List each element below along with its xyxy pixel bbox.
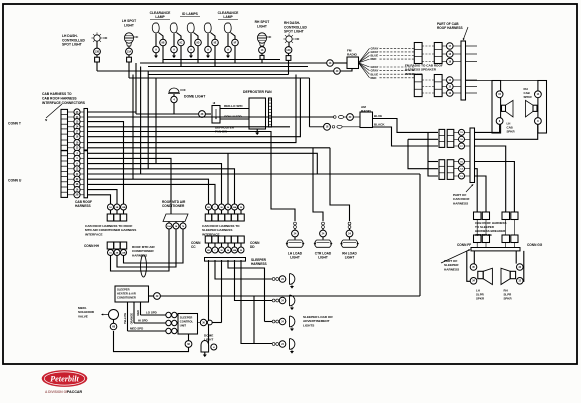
ground bbox=[203, 355, 207, 358]
connector circle 13C bbox=[285, 47, 292, 54]
svg-text:SLEEPER: SLEEPER bbox=[117, 288, 130, 292]
connector circle 24 CTR LOAD bbox=[320, 230, 327, 237]
svg-text:HI: HI bbox=[213, 102, 216, 105]
wire bbox=[215, 260, 272, 279]
sleeper load/advertisement light bbox=[272, 320, 275, 323]
lamp RH LOAD LIGHT bbox=[341, 240, 358, 247]
connector circle 33 bbox=[517, 264, 524, 271]
speaker RH cab horn bbox=[533, 105, 537, 111]
wire bus bbox=[129, 77, 310, 79]
connector CONN T pin stack bbox=[61, 109, 68, 150]
wire bbox=[214, 46, 216, 67]
wire CONN U8 bbox=[88, 190, 118, 204]
clearance/ID lamp 3 bbox=[187, 23, 194, 33]
wire bbox=[208, 260, 210, 342]
wire bbox=[128, 46, 130, 48]
svg-text:CONN FF: CONN FF bbox=[457, 243, 471, 247]
connector circle 13B bbox=[94, 48, 101, 55]
clearance/ID lamp 1 bbox=[152, 23, 159, 33]
wire bbox=[344, 116, 347, 118]
connector circle 13 bbox=[259, 47, 266, 54]
svg-text:CONN HH: CONN HH bbox=[84, 244, 100, 248]
svg-text:HARNESS: HARNESS bbox=[75, 204, 91, 208]
svg-text:RED: RED bbox=[371, 57, 377, 61]
wire bbox=[135, 63, 137, 114]
wire bbox=[501, 80, 538, 82]
wire stubs to bar bbox=[476, 243, 478, 248]
dome light symbol bbox=[169, 88, 179, 93]
svg-text:16A: 16A bbox=[167, 225, 171, 228]
terminal connector bbox=[260, 55, 264, 59]
svg-text:LIGHT: LIGHT bbox=[318, 256, 328, 260]
connector circles row bbox=[108, 204, 114, 210]
svg-text:LAMP: LAMP bbox=[155, 15, 165, 19]
wire bbox=[419, 174, 421, 296]
svg-text:BLUE: BLUE bbox=[374, 114, 382, 118]
svg-text:2B: 2B bbox=[116, 252, 119, 254]
wire CONN T7 bbox=[88, 75, 297, 143]
svg-text:INTERFACE: INTERFACE bbox=[85, 232, 103, 236]
wire CONN U4 bbox=[88, 169, 235, 204]
svg-text:BLACK: BLACK bbox=[374, 123, 385, 127]
connector circle 24 RH LOAD bbox=[346, 230, 353, 237]
connector circles row 2 bbox=[206, 247, 212, 253]
ground bbox=[291, 349, 293, 351]
svg-text:DD: DD bbox=[250, 245, 255, 249]
wire CONN U6 bbox=[88, 179, 209, 204]
wire bbox=[253, 296, 255, 344]
terminal square pairs row 2 bbox=[474, 235, 482, 243]
connector circle H bbox=[211, 344, 217, 350]
svg-text:ORANGE: ORANGE bbox=[130, 313, 134, 325]
ground bbox=[256, 129, 258, 133]
wire dashed links bbox=[422, 45, 434, 47]
connector circles 17 18 19 bbox=[447, 43, 454, 50]
wire bus bbox=[163, 59, 280, 61]
svg-text:ROOF HARNESS: ROOF HARNESS bbox=[437, 26, 463, 30]
svg-text:LIGHT: LIGHT bbox=[345, 256, 355, 260]
connector CONN U circles bbox=[74, 150, 80, 156]
ground bbox=[291, 284, 293, 286]
svg-text:13A: 13A bbox=[127, 50, 132, 53]
connector circle 28 bbox=[199, 111, 206, 118]
lamp LH LOAD LIGHT bbox=[287, 240, 304, 247]
connector circle 9 bbox=[171, 46, 178, 53]
svg-text:HARNESS: HARNESS bbox=[453, 201, 468, 205]
fuse link RH LOAD bbox=[348, 222, 351, 225]
wire bbox=[228, 260, 265, 322]
sleeper heater box bbox=[115, 286, 149, 302]
wire CONN T5 bbox=[88, 132, 296, 222]
terminal squares row 2 bbox=[107, 242, 114, 249]
speaker LH cab horn bbox=[502, 105, 506, 111]
ground bbox=[207, 53, 209, 56]
wire ORN-HI SPD bbox=[220, 118, 250, 120]
breaker strip column 1 bbox=[414, 43, 422, 64]
wire bbox=[342, 126, 360, 128]
svg-text:13B: 13B bbox=[95, 50, 100, 53]
svg-text:LO SPD: LO SPD bbox=[146, 311, 157, 315]
connector circle 4 bbox=[171, 96, 177, 102]
svg-text:HEATER & A/R: HEATER & A/R bbox=[117, 291, 136, 295]
svg-text:SPKR: SPKR bbox=[504, 296, 513, 300]
wire bbox=[475, 125, 538, 140]
wire bbox=[294, 228, 296, 230]
defroster fan box bbox=[249, 98, 266, 129]
FM radio wire fan-out bbox=[359, 48, 370, 63]
wire bbox=[467, 251, 470, 281]
wire CONN T1 bbox=[88, 111, 137, 113]
connector circle 9B bbox=[160, 39, 167, 46]
wire bbox=[288, 42, 290, 46]
svg-text:UNIT: UNIT bbox=[180, 323, 187, 327]
connector circle 35 bbox=[470, 264, 477, 271]
speaker RH sleeper horn bbox=[510, 271, 515, 278]
svg-text:RED: RED bbox=[136, 310, 140, 316]
lamp RH spot light bbox=[257, 33, 266, 43]
connector circle 9 bbox=[188, 46, 195, 53]
wire bbox=[162, 46, 164, 63]
svg-text:13C: 13C bbox=[286, 49, 291, 52]
wire bbox=[476, 220, 478, 236]
wire drop to CONN U bbox=[140, 67, 142, 175]
sleeper load/advertisement light bbox=[272, 299, 275, 302]
connector circle 14 bbox=[535, 91, 542, 98]
svg-text:DEFROSTER FAN: DEFROSTER FAN bbox=[243, 90, 272, 94]
FM radio box bbox=[347, 57, 359, 69]
wire CONN U5 bbox=[88, 173, 421, 175]
svg-text:YELLOW: YELLOW bbox=[123, 312, 127, 324]
wire bbox=[227, 153, 229, 204]
svg-text:SPKR: SPKR bbox=[507, 129, 516, 133]
lamp RH dash-controlled spot light bbox=[286, 36, 292, 42]
wire bbox=[208, 342, 210, 344]
connector circle 9C bbox=[178, 39, 185, 46]
svg-text:HARNESS: HARNESS bbox=[444, 267, 459, 271]
svg-text:LIGHT: LIGHT bbox=[124, 23, 134, 27]
wire drop to CONN U bbox=[132, 75, 134, 180]
wire LO SPD bbox=[141, 314, 166, 316]
sleeper load/advertisement light bbox=[272, 343, 275, 346]
svg-text:CAB ROOF HARNESS: CAB ROOF HARNESS bbox=[42, 96, 77, 100]
breaker strip column 2 bbox=[434, 43, 442, 64]
sleeper control unit box bbox=[178, 314, 198, 335]
defroster fan switch bbox=[212, 106, 220, 124]
fuse bbox=[337, 125, 342, 128]
connector circle pairs bbox=[166, 312, 171, 317]
wire bus bbox=[140, 62, 327, 64]
wire bbox=[340, 69, 352, 72]
terminal squares row bbox=[205, 214, 212, 221]
svg-text:SPKR: SPKR bbox=[524, 95, 533, 99]
ground bbox=[227, 53, 229, 56]
leader arrow bbox=[464, 27, 469, 39]
connector circle 24 LH LOAD bbox=[292, 230, 299, 237]
terminal square bbox=[95, 57, 100, 62]
speaker LH cab frame bbox=[492, 81, 501, 134]
connector circle bbox=[496, 118, 503, 125]
wire bbox=[473, 251, 475, 264]
wire loop bbox=[408, 139, 438, 168]
terminal square bbox=[286, 56, 291, 61]
wire stubs bbox=[466, 45, 478, 47]
connector circles 14 15 16 bbox=[447, 77, 454, 84]
wire bbox=[475, 176, 487, 212]
svg-text:INTERFACE CONNECTORS: INTERFACE CONNECTORS bbox=[42, 101, 86, 105]
wire CONN U2 bbox=[88, 158, 172, 214]
ground bbox=[190, 53, 192, 56]
wire bbox=[173, 94, 175, 96]
svg-text:RED-LO SPD: RED-LO SPD bbox=[224, 104, 243, 108]
wire HI SPD bbox=[134, 322, 166, 324]
connector circle 40 bbox=[334, 68, 341, 75]
connector circle 13 bbox=[327, 60, 334, 67]
wire bbox=[96, 41, 98, 48]
leader arrow bbox=[466, 185, 473, 192]
svg-text:SLEEPER: SLEEPER bbox=[180, 316, 193, 320]
connector circle 29 bbox=[154, 293, 161, 300]
terminal square pairs row 1 bbox=[474, 212, 482, 220]
wire bbox=[227, 34, 229, 47]
connector circle 9 bbox=[225, 46, 232, 53]
sleeper load/advertisement light bbox=[272, 278, 275, 281]
leader arrow bbox=[441, 250, 469, 263]
svg-text:RADIO: RADIO bbox=[347, 53, 358, 57]
connector circles bbox=[459, 129, 465, 135]
wire bbox=[97, 70, 334, 72]
wire bbox=[349, 228, 351, 230]
connector ladder block group 2 bbox=[439, 160, 445, 180]
svg-text:LIGHT: LIGHT bbox=[290, 256, 300, 260]
terminal squares row bbox=[107, 214, 114, 221]
svg-text:RED: RED bbox=[371, 76, 377, 80]
svg-text:24A: 24A bbox=[233, 206, 237, 209]
svg-text:CONN GG: CONN GG bbox=[527, 243, 543, 247]
connector circles row 2 bbox=[108, 250, 114, 256]
svg-text:ID LAMPS: ID LAMPS bbox=[182, 12, 199, 16]
wire bbox=[333, 62, 347, 64]
wire bbox=[235, 260, 273, 301]
speaker RH cab frame bbox=[538, 81, 547, 134]
connector circle 34 bbox=[470, 278, 477, 285]
wire drop to CONN U bbox=[155, 78, 157, 164]
svg-text:A DIVISION OF: A DIVISION OF bbox=[45, 390, 68, 394]
leader arrow bbox=[46, 104, 62, 118]
wire bbox=[515, 251, 517, 264]
wire bus bbox=[148, 66, 308, 68]
wire bbox=[205, 113, 211, 115]
wire fan speed leads bbox=[127, 302, 129, 331]
wire CONN T2 bbox=[88, 116, 334, 118]
connector circles row CONN CC bbox=[206, 204, 212, 210]
fuse link CTR LOAD bbox=[322, 222, 325, 225]
svg-text:9E: 9E bbox=[214, 42, 217, 44]
connector bar sleeper harness bbox=[205, 258, 246, 262]
svg-text:MED SPD: MED SPD bbox=[130, 327, 143, 331]
connector bar part of cab roof harness bbox=[461, 41, 466, 100]
wire bbox=[466, 80, 493, 82]
lamp CTR LOAD LIGHT bbox=[315, 240, 332, 247]
clearance/ID lamp 5 bbox=[224, 23, 231, 33]
connector circle 9D bbox=[195, 39, 202, 46]
svg-text:INTERFACE: INTERFACE bbox=[405, 72, 423, 76]
lamp LH spot light bbox=[124, 33, 133, 43]
wire bbox=[475, 146, 506, 212]
connector circles bbox=[166, 223, 172, 229]
svg-text:2B: 2B bbox=[76, 195, 79, 197]
svg-text:CC: CC bbox=[191, 245, 196, 249]
fuse link LH LOAD bbox=[294, 222, 297, 225]
wire drop to CONN U bbox=[147, 71, 149, 169]
svg-text:9B: 9B bbox=[162, 42, 165, 44]
svg-text:9C: 9C bbox=[180, 42, 183, 44]
wire bbox=[309, 78, 311, 127]
wire bbox=[265, 321, 273, 323]
Peterbilt logo oval bbox=[42, 370, 88, 387]
wire bbox=[475, 162, 515, 213]
connector circle 13A bbox=[126, 48, 133, 55]
wire bbox=[173, 34, 175, 47]
wire bbox=[261, 45, 263, 48]
svg-text:LIGHTS: LIGHTS bbox=[303, 323, 314, 327]
wire bbox=[475, 169, 478, 212]
wire MED SPD bbox=[128, 330, 166, 332]
wire CONN U1 bbox=[88, 153, 318, 174]
connector bar part of cab roof harness 2 bbox=[470, 128, 475, 183]
wire CONN T4 bbox=[88, 126, 291, 128]
svg-text:HARNESS: HARNESS bbox=[251, 262, 267, 266]
roof mtd air conditioner unit bbox=[163, 214, 188, 222]
clearance/ID lamp 2 bbox=[170, 23, 177, 33]
wire CONN T3 bbox=[88, 122, 124, 204]
ground bbox=[155, 53, 157, 56]
connector circle 9E bbox=[212, 39, 219, 46]
fuse bbox=[338, 116, 343, 119]
wire bbox=[310, 126, 324, 128]
svg-text:HI SPD: HI SPD bbox=[138, 319, 148, 323]
connector face bar CONN T bbox=[84, 109, 88, 151]
connector circle 36 bbox=[198, 322, 201, 324]
wire CONN U3 bbox=[88, 164, 222, 204]
ground bbox=[291, 327, 293, 329]
terminal squares row 2 bbox=[205, 236, 212, 243]
connector ladder block group 1 bbox=[439, 129, 445, 147]
fan motor hatched bbox=[269, 98, 272, 127]
ground bbox=[291, 306, 293, 308]
wire bbox=[149, 295, 154, 297]
wire RED-LO SPD bbox=[220, 108, 250, 110]
connector circle 18 bbox=[324, 123, 331, 130]
svg-text:CONN U: CONN U bbox=[8, 179, 22, 183]
svg-text:SPOT LIGHT: SPOT LIGHT bbox=[62, 43, 82, 47]
lamp LH dash-controlled spot light bbox=[94, 35, 100, 41]
wire bbox=[188, 334, 190, 341]
terminal square bbox=[127, 57, 132, 62]
wire bbox=[475, 125, 500, 133]
speaker LH sleeper horn bbox=[478, 271, 483, 278]
wire bbox=[197, 46, 199, 63]
connector circle 15 bbox=[496, 91, 503, 98]
wire load light feed ctr bbox=[313, 148, 323, 221]
connector circle 9 bbox=[205, 46, 212, 53]
wire conduit runs bbox=[111, 229, 170, 271]
wire bbox=[190, 34, 192, 47]
connector face bar CONN U bbox=[84, 150, 88, 198]
svg-text:VALVE: VALVE bbox=[78, 314, 88, 318]
connector circle 9 bbox=[153, 46, 160, 53]
svg-text:CAB HARNESS TO: CAB HARNESS TO bbox=[42, 92, 72, 96]
wire loop 2 bbox=[428, 132, 438, 176]
wire bbox=[520, 251, 524, 281]
svg-text:PACCAR: PACCAR bbox=[67, 390, 83, 394]
AM radio box bbox=[360, 112, 373, 128]
ground bbox=[173, 53, 175, 56]
wire bbox=[207, 34, 209, 47]
svg-text:12B: 12B bbox=[121, 207, 125, 209]
svg-text:DOME LIGHT: DOME LIGHT bbox=[184, 95, 206, 99]
connector circle H8 bbox=[110, 323, 117, 330]
wire CONN U7 bbox=[88, 184, 216, 204]
wire bbox=[234, 46, 236, 63]
connector circle 9F bbox=[232, 39, 239, 46]
svg-text:9D: 9D bbox=[197, 42, 200, 44]
svg-text:CONN T: CONN T bbox=[8, 122, 22, 126]
svg-text:SPKR: SPKR bbox=[476, 296, 485, 300]
conduit bbox=[141, 255, 147, 277]
svg-text:SPOT LIGHT: SPOT LIGHT bbox=[284, 30, 304, 34]
svg-text:CONTROL: CONTROL bbox=[180, 319, 194, 323]
svg-text:Peterbilt: Peterbilt bbox=[50, 375, 79, 384]
connector circle bbox=[535, 118, 542, 125]
connector circle 30 bbox=[347, 114, 354, 121]
wire load light feed rh bbox=[330, 148, 350, 221]
wire CONN T6 bbox=[88, 78, 301, 137]
clearance/ID lamp 4 bbox=[204, 23, 211, 33]
svg-text:CONDITIONER: CONDITIONER bbox=[117, 295, 136, 299]
connector circle 38 bbox=[185, 341, 192, 348]
wire bbox=[221, 260, 223, 323]
wire bbox=[241, 260, 272, 344]
wire bus bbox=[148, 74, 289, 76]
connector CONN T circles bbox=[74, 109, 80, 115]
connector bar sleeper bbox=[471, 248, 520, 251]
medi solenoid valve bbox=[109, 310, 119, 320]
svg-text:LIGHT: LIGHT bbox=[257, 24, 267, 28]
wire bbox=[212, 322, 221, 324]
connector CONN U pin stack bbox=[61, 151, 68, 198]
svg-text:CONDITIONER: CONDITIONER bbox=[162, 204, 185, 208]
wire bbox=[322, 228, 324, 230]
svg-text:LAMP: LAMP bbox=[223, 15, 233, 19]
svg-text:24A: 24A bbox=[233, 249, 237, 252]
connector circle 32 bbox=[517, 278, 524, 285]
svg-text:12B: 12B bbox=[121, 252, 125, 254]
svg-text:2B: 2B bbox=[116, 207, 119, 209]
wire CONN U9 bbox=[88, 195, 111, 204]
wire bbox=[155, 34, 157, 47]
wire bbox=[180, 46, 182, 67]
